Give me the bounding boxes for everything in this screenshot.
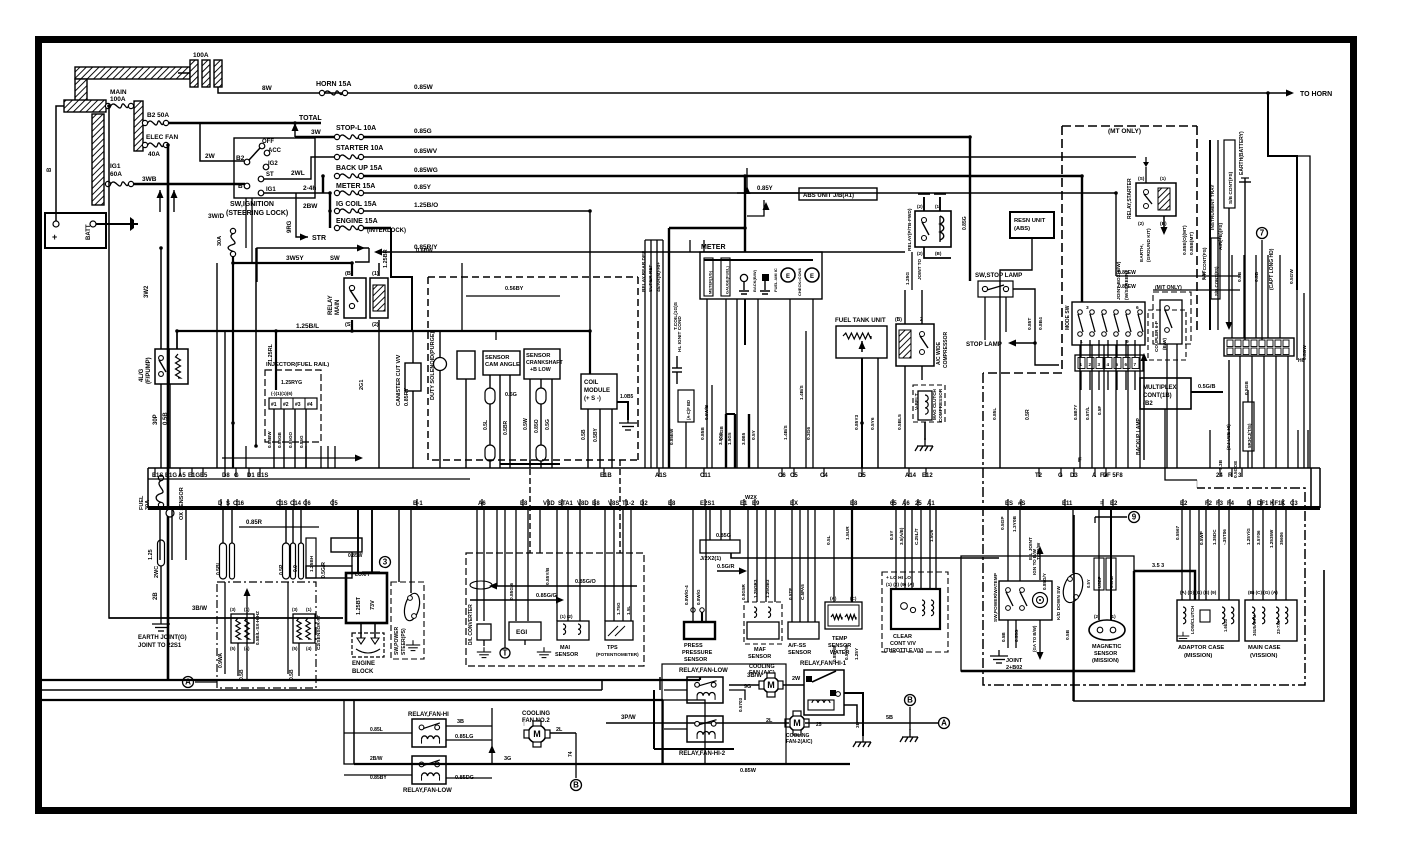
injector feed wire bbox=[255, 248, 257, 446]
svg-text:C.5PA5: C.5PA5 bbox=[800, 584, 805, 600]
wire battery positive to main bar bbox=[56, 106, 66, 221]
svg-text:0.85Y/B: 0.85Y/B bbox=[545, 567, 551, 585]
svg-text:1.25RYG: 1.25RYG bbox=[281, 380, 302, 386]
svg-text:3.5(A/B): 3.5(A/B) bbox=[899, 527, 904, 545]
svg-text:COOLING: COOLING bbox=[522, 711, 550, 717]
svg-text:IGN TO B/W: IGN TO B/W bbox=[1032, 548, 1037, 575]
svg-text:1.5UR: 1.5UR bbox=[845, 526, 851, 540]
relay RELAY,FAN-LOW left bbox=[412, 756, 446, 784]
svg-text:B: B bbox=[47, 167, 53, 172]
sensor TEMP SENSOR WATER bbox=[825, 602, 862, 629]
wire sub cont down bbox=[1228, 208, 1230, 326]
svg-text:E12: E12 bbox=[922, 473, 933, 479]
svg-text:COMPRESSOR: COMPRESSOR bbox=[943, 331, 949, 368]
svg-text:COMPRESSOR: COMPRESSOR bbox=[938, 388, 943, 422]
svg-text:2WC: 2WC bbox=[154, 566, 160, 578]
resistor pair right bbox=[293, 614, 315, 643]
svg-text:CLEAR: CLEAR bbox=[893, 634, 912, 640]
joint box bbox=[331, 538, 362, 552]
svg-text:3W2: 3W2 bbox=[144, 285, 150, 298]
wire left drop 2 bbox=[160, 248, 162, 349]
svg-text:(1): (1) bbox=[306, 607, 312, 612]
svg-text:1.5L: 1.5L bbox=[626, 606, 631, 615]
svg-text:A1S: A1S bbox=[655, 473, 667, 479]
wire ecu right end stub bbox=[1310, 468, 1312, 508]
svg-text:5R3CJ(T/S): 5R3CJ(T/S) bbox=[1247, 423, 1252, 448]
wires mode sw down bbox=[1079, 345, 1081, 468]
svg-text:TOTAL: TOTAL bbox=[299, 115, 322, 122]
svg-text:3.5 3: 3.5 3 bbox=[1152, 563, 1164, 569]
svg-text:STOP-L 10A: STOP-L 10A bbox=[336, 125, 376, 132]
svg-text:SENSOR: SENSOR bbox=[788, 650, 811, 656]
svg-text:CONT V/V: CONT V/V bbox=[890, 641, 916, 647]
svg-text:+ LO HI LO: + LO HI LO bbox=[886, 575, 911, 581]
wire engine feed to meter bbox=[669, 227, 745, 229]
tps TPS bbox=[605, 621, 633, 640]
dash-dot mission enclosure bbox=[983, 373, 1305, 685]
wires main case bbox=[1252, 508, 1254, 600]
svg-text:STA1: STA1 bbox=[558, 501, 574, 507]
wire TOTAL feed to stop fuse bbox=[294, 123, 296, 137]
svg-text:C14: C14 bbox=[290, 501, 302, 507]
svg-text:#4: #4 bbox=[307, 402, 313, 408]
svg-text:RELAY,FAN-LOW: RELAY,FAN-LOW bbox=[403, 788, 452, 794]
svg-text:7: 7 bbox=[1260, 229, 1265, 238]
wire B2 50A to TOTAL bbox=[168, 122, 321, 125]
svg-text:SW,STOP LAMP: SW,STOP LAMP bbox=[975, 272, 1022, 279]
wire fan hi1 bottom link bbox=[844, 705, 857, 723]
wire horn branch down bbox=[1268, 93, 1297, 290]
dashed links between boxes bbox=[529, 460, 531, 553]
wire bus lower group bbox=[42, 679, 700, 681]
multiplex MULTIPLEX CONT UNIT bbox=[1140, 378, 1191, 409]
svg-text:1.25Y/G: 1.25Y/G bbox=[1246, 528, 1251, 545]
ground earth joint bbox=[152, 618, 170, 631]
svg-text:8W: 8W bbox=[262, 85, 273, 92]
wire link to horn line bbox=[218, 87, 322, 93]
svg-text:E5: E5 bbox=[200, 473, 208, 479]
svg-text:0.5Y: 0.5Y bbox=[1086, 579, 1091, 588]
valve CLEAR CONT V/V dashed bbox=[882, 572, 948, 652]
svg-text:0.5GOE: 0.5GOE bbox=[1233, 460, 1239, 478]
wire resn down bbox=[1000, 238, 1032, 468]
wire 2W to ignition B2 bbox=[200, 123, 245, 161]
svg-text:RELAY,FAN-HI-2: RELAY,FAN-HI-2 bbox=[679, 751, 726, 757]
svg-text:BATT: BATT bbox=[86, 224, 92, 240]
svg-text:0.5F: 0.5F bbox=[1097, 406, 1102, 415]
svg-text:EGI: EGI bbox=[516, 629, 527, 636]
svg-text:(M/T ONLY): (M/T ONLY) bbox=[1155, 285, 1182, 291]
svg-text:1.25RL: 1.25RL bbox=[268, 343, 274, 362]
svg-text:D2: D2 bbox=[640, 501, 648, 507]
wires meter to ecu bbox=[706, 299, 708, 468]
svg-text:F4: F4 bbox=[1227, 501, 1235, 507]
wire starter line bbox=[363, 156, 1136, 158]
wire crank links bbox=[500, 463, 560, 465]
svg-text:E: E bbox=[786, 274, 790, 280]
wire j2x2 stub bbox=[709, 508, 711, 540]
svg-text:0.5567: 0.5567 bbox=[1175, 526, 1180, 540]
svg-text:0.5GB: 0.5GB bbox=[1244, 381, 1250, 395]
wire stop lamp line 0.85G bbox=[363, 136, 970, 138]
svg-text:MODULE: MODULE bbox=[584, 388, 610, 394]
twisted pair to pressure sensor bbox=[691, 608, 695, 612]
svg-text:(1): (1) bbox=[1160, 176, 1166, 182]
svg-text:3B: 3B bbox=[457, 719, 464, 725]
screen box (A-C) F BOARD SCREEN bbox=[678, 390, 694, 422]
wire elec fan drop bbox=[167, 145, 170, 680]
svg-text:RELAY,FAN-HI-1: RELAY,FAN-HI-1 bbox=[800, 661, 847, 667]
svg-text:(B2: (B2 bbox=[1143, 401, 1153, 407]
svg-text:F2: F2 bbox=[1205, 501, 1213, 507]
wire ptb out bbox=[924, 247, 951, 258]
wire stop lamp out bbox=[1010, 289, 1035, 343]
svg-text:0.85O: 0.85O bbox=[534, 419, 540, 433]
wire capt drop bbox=[1261, 240, 1263, 340]
svg-text:(MISSION): (MISSION) bbox=[1184, 653, 1212, 659]
ground joint 2+B02 bbox=[990, 650, 1008, 663]
svg-text:RELAY,STARTER: RELAY,STARTER bbox=[1127, 178, 1133, 219]
hatched bar main top bbox=[75, 67, 190, 79]
svg-text:2WL: 2WL bbox=[291, 170, 305, 177]
wire fuel pump relay drops bbox=[160, 384, 162, 468]
svg-text:C16: C16 bbox=[233, 501, 245, 507]
motor COOLING FAN MAIN bbox=[785, 711, 809, 735]
boxed label 5R3CJ bbox=[1243, 402, 1254, 451]
wire dashed right edge bbox=[637, 277, 639, 460]
svg-text:0.5B7Y: 0.5B7Y bbox=[1073, 405, 1078, 420]
wire pre-ecu link line bbox=[222, 457, 360, 459]
svg-text:0.5GW: 0.5GW bbox=[1302, 345, 1308, 360]
engine block ground box bbox=[352, 633, 384, 657]
junction ABS UNIT J/B(A1) bbox=[799, 188, 877, 200]
svg-text:RELAY,FAN-HI: RELAY,FAN-HI bbox=[408, 712, 449, 718]
wire IG1 to ignition B bbox=[133, 183, 245, 186]
svg-text:M: M bbox=[533, 729, 541, 739]
svg-text:E1S: E1S bbox=[257, 473, 268, 479]
svg-text:0.85GO: 0.85GO bbox=[288, 431, 293, 448]
svg-text:40A: 40A bbox=[148, 151, 160, 158]
wire bundle ecu bottom left bbox=[222, 508, 224, 543]
svg-text:0.85E(O)(MT): 0.85E(O)(MT) bbox=[1182, 225, 1188, 255]
svg-text:1.25Y: 1.25Y bbox=[854, 648, 859, 660]
wires adaptor case bbox=[1181, 508, 1183, 600]
wires mt only down bbox=[1166, 344, 1168, 468]
wire ecu left drops bbox=[159, 508, 161, 560]
wire backup line 0.85WG bbox=[363, 175, 1082, 177]
svg-text:0.5G: 0.5G bbox=[545, 419, 551, 430]
svg-text:0.3G6: 0.3G6 bbox=[806, 427, 812, 440]
big right-bottom box bbox=[1074, 515, 1324, 701]
svg-text:#3: #3 bbox=[295, 402, 301, 408]
svg-text:0.85G: 0.85G bbox=[716, 533, 731, 539]
wire f2 bundle bbox=[1196, 480, 1198, 488]
svg-text:SENSOR: SENSOR bbox=[526, 353, 551, 359]
boxed labels USBP 0.5Y 0.5RB bbox=[1094, 558, 1104, 590]
svg-text:(POTENTIOMETER): (POTENTIOMETER) bbox=[596, 652, 639, 657]
svg-text:E2: E2 bbox=[1180, 501, 1188, 507]
svg-text:0.85G: 0.85G bbox=[962, 216, 968, 230]
svg-text:0.5Y: 0.5Y bbox=[751, 429, 757, 440]
svg-text:73V: 73V bbox=[370, 600, 376, 610]
svg-text:T1-2: T1-2 bbox=[622, 501, 635, 507]
svg-text:E8: E8 bbox=[668, 501, 676, 507]
svg-text:-.35T06: -.35T06 bbox=[1222, 529, 1227, 545]
svg-text:IG1: IG1 bbox=[110, 163, 121, 170]
svg-text:EX: EX bbox=[790, 501, 798, 507]
svg-text:A/F-SS: A/F-SS bbox=[788, 643, 806, 649]
wires joint box up bbox=[1080, 340, 1082, 357]
svg-text:0.5G/R: 0.5G/R bbox=[717, 564, 734, 570]
svg-text:RELAY(P/TB-FWD): RELAY(P/TB-FWD) bbox=[907, 208, 913, 251]
wires left relay links bbox=[344, 732, 412, 734]
wire IG1 down to STR bbox=[296, 193, 308, 237]
svg-text:SW,POWER/WATEMP: SW,POWER/WATEMP bbox=[993, 572, 999, 622]
svg-text:7: 7 bbox=[1134, 362, 1137, 367]
wire vertical 0.5BR bbox=[216, 263, 218, 468]
wires sw power bbox=[1007, 508, 1009, 581]
svg-text:COUPLER 6-P: COUPLER 6-P bbox=[1154, 321, 1159, 352]
svg-text:1.75G: 1.75G bbox=[616, 602, 621, 615]
svg-text:JOINT TO: JOINT TO bbox=[917, 258, 922, 280]
svg-text:FUEL AMI IC: FUEL AMI IC bbox=[773, 268, 778, 292]
node circle A bbox=[183, 677, 194, 688]
wires cooling fan no2 bbox=[550, 732, 576, 734]
svg-text:ENGINE 15A: ENGINE 15A bbox=[336, 218, 378, 225]
svg-text:9: 9 bbox=[1132, 513, 1137, 522]
wires connector down bbox=[1239, 356, 1241, 468]
wire clutch line 0.85RY bbox=[376, 251, 905, 253]
dash-dot box spark plug resistors bbox=[217, 582, 316, 688]
svg-text:(S): (S) bbox=[1138, 176, 1145, 182]
svg-text:(INTERLOCK): (INTERLOCK) bbox=[367, 228, 406, 234]
wire interlock box top bbox=[257, 248, 369, 282]
wires to resistor block bbox=[357, 508, 359, 573]
svg-text:(1) (2) (9) (A): (1) (2) (9) (A) bbox=[886, 582, 915, 588]
svg-text:0.85BY: 0.85BY bbox=[370, 775, 387, 781]
svg-text:(1): (1) bbox=[372, 271, 379, 277]
wires coil module down bbox=[587, 409, 589, 468]
svg-text:C3: C3 bbox=[1290, 501, 1298, 507]
wire ig coil line 1.25BO bbox=[363, 210, 590, 212]
svg-text:(STEERING LOCK): (STEERING LOCK) bbox=[226, 210, 288, 217]
sensor MAGNETIC SENSOR (MISSION) bbox=[1089, 620, 1125, 640]
svg-text:2B: 2B bbox=[153, 592, 159, 600]
svg-text:EARTH(BATTERY): EARTH(BATTERY) bbox=[1239, 131, 1245, 175]
egi EGI box bbox=[509, 622, 541, 640]
svg-text:0.85G: 0.85G bbox=[414, 128, 432, 135]
svg-text:0.85G/6: 0.85G/6 bbox=[509, 583, 515, 600]
wire ST to starter fuse bbox=[264, 157, 337, 179]
wires joint box down bbox=[1080, 371, 1082, 390]
connector oval in dashed box bbox=[470, 581, 492, 589]
boxed vertical label SUB CONT(FS) bbox=[1224, 140, 1235, 208]
svg-text:0.85Y3: 0.85Y3 bbox=[854, 414, 860, 430]
svg-text:(VISSION): (VISSION) bbox=[1250, 653, 1277, 659]
svg-text:0.5Y: 0.5Y bbox=[889, 531, 894, 540]
svg-text:EARTH,: EARTH, bbox=[1139, 243, 1145, 262]
svg-text:0.85GB: 0.85GB bbox=[277, 431, 282, 448]
svg-text:2: 2 bbox=[1089, 362, 1092, 367]
svg-text:COIL: COIL bbox=[584, 380, 599, 386]
node circle 9 bbox=[1129, 512, 1140, 523]
wire coil module feed bbox=[589, 331, 591, 374]
svg-text:6: 6 bbox=[1125, 362, 1128, 367]
svg-text:MAF: MAF bbox=[754, 647, 767, 653]
svg-text:100A: 100A bbox=[193, 52, 209, 59]
svg-text:0.8B4: 0.8B4 bbox=[1038, 317, 1044, 330]
svg-text:DF1: DF1 bbox=[1257, 501, 1269, 507]
svg-text:ST: ST bbox=[266, 172, 274, 178]
svg-text:0.5L: 0.5L bbox=[826, 535, 832, 545]
wire injector rail feed 1.25RL bbox=[275, 331, 277, 390]
wire stop lamp right bbox=[1035, 343, 1059, 365]
svg-text:(F/PUMP): (F/PUMP) bbox=[146, 357, 152, 384]
svg-text:0.5B/L-SX-H-HZ: 0.5B/L-SX-H-HZ bbox=[255, 611, 260, 645]
connector capsules cam/crank bbox=[485, 388, 495, 404]
wire bundle mid-left verticals bbox=[245, 446, 247, 468]
wire ign to bw arrow bbox=[1039, 548, 1041, 580]
box sw power/water enclosure bbox=[961, 556, 1134, 671]
boxed vertical label S/B CONT(FS) 2 bbox=[1211, 238, 1220, 299]
svg-text:(MT ONLY): (MT ONLY) bbox=[1108, 128, 1141, 135]
maincase MAIN CASE (VISSION) bbox=[1245, 600, 1297, 641]
svg-text:S/B CONT(FS): S/B CONT(FS) bbox=[1228, 171, 1234, 204]
wires dashed box to ecu bbox=[476, 508, 478, 553]
wire horn line 0.85W bbox=[322, 92, 1268, 94]
svg-text:STEER(PS): STEER(PS) bbox=[401, 628, 407, 655]
wires ac relay bbox=[904, 366, 906, 468]
boxed label 1.25BH bbox=[306, 538, 316, 578]
sensor SENSOR CAM ANGLE bbox=[483, 351, 520, 375]
ECU connector top edge bbox=[148, 467, 1320, 469]
svg-text:D8: D8 bbox=[222, 473, 230, 479]
svg-text:INJECTOR(FUEL RAIL): INJECTOR(FUEL RAIL) bbox=[266, 362, 329, 368]
svg-text:D/L CONVERTER: D/L CONVERTER bbox=[468, 604, 474, 645]
svg-text:0.5W: 0.5W bbox=[523, 418, 529, 430]
svg-text:RELAY: RELAY bbox=[328, 295, 334, 315]
svg-text:TO HORN: TO HORN bbox=[1300, 91, 1332, 98]
wire backup feed vertical bbox=[322, 176, 324, 193]
relay RELAY A/C WIDE bbox=[896, 324, 934, 366]
coil COIL MODULE bbox=[581, 374, 617, 409]
wire coil module right 1.0B5 bbox=[617, 402, 628, 420]
svg-text:A14: A14 bbox=[905, 473, 917, 479]
svg-text:A6: A6 bbox=[902, 501, 910, 507]
dashed box duty/sensor group bbox=[428, 277, 638, 460]
svg-text:65: 65 bbox=[890, 501, 897, 507]
svg-text:E8: E8 bbox=[520, 501, 528, 507]
switch MODE SW box bbox=[1072, 302, 1145, 345]
svg-text:0.85L: 0.85L bbox=[370, 727, 383, 733]
wires pressure sensor bbox=[692, 508, 694, 622]
svg-text:0.5B: 0.5B bbox=[1254, 271, 1260, 282]
sensor PRESS PRESSURE SENSOR bbox=[684, 622, 715, 639]
svg-text:(3): (3) bbox=[292, 607, 298, 612]
wire hi branch bbox=[398, 508, 400, 582]
svg-text:0.85BW: 0.85BW bbox=[267, 431, 272, 448]
svg-text:0.5B: 0.5B bbox=[289, 669, 295, 680]
svg-text:0.9: 0.9 bbox=[293, 565, 299, 572]
svg-text:2W: 2W bbox=[792, 676, 801, 682]
wire meter bundle top bbox=[644, 240, 646, 468]
svg-text:(B/W): (B/W) bbox=[1162, 338, 1167, 350]
svg-text:0.85Y/B: 0.85Y/B bbox=[832, 645, 837, 662]
svg-text:2B/W: 2B/W bbox=[370, 756, 383, 762]
svg-text:(2): (2) bbox=[1138, 221, 1144, 227]
ECU pin stubs top row bbox=[154, 468, 156, 477]
wire main relay top feed 3W5Y bbox=[233, 263, 352, 276]
svg-text:2L: 2L bbox=[556, 727, 563, 733]
svg-text:(B): (B) bbox=[895, 317, 902, 323]
svg-text:E1G: E1G bbox=[188, 473, 200, 479]
wire thick fan feed bbox=[354, 763, 850, 765]
svg-text:(A) (D) (G) (E) (9): (A) (D) (G) (E) (9) bbox=[1180, 590, 1217, 595]
wire backup lamp arrow bbox=[1143, 355, 1145, 460]
wire main fan line bbox=[606, 722, 789, 724]
wire kd down bbox=[1072, 508, 1074, 573]
compressor MAG CLUTCH dashed bbox=[913, 385, 945, 422]
svg-text:W2X: W2X bbox=[745, 495, 757, 501]
svg-text:4: 4 bbox=[1107, 362, 1110, 367]
wire to earth joint bbox=[160, 566, 162, 618]
svg-text:(MISSION): (MISSION) bbox=[1092, 658, 1119, 664]
svg-text:V-BELT: V-BELT bbox=[914, 393, 920, 410]
svg-text:0.85LG: 0.85LG bbox=[455, 734, 473, 740]
svg-text:EARTH JOINT(G): EARTH JOINT(G) bbox=[138, 635, 187, 641]
wire compressor bundle mid bbox=[911, 252, 913, 290]
svg-text:IG1: IG1 bbox=[266, 187, 276, 193]
svg-text:2G1: 2G1 bbox=[359, 380, 365, 390]
dashed box sensor cluster bbox=[466, 553, 644, 666]
node circle B right bbox=[905, 695, 916, 706]
wire bus 3BW bbox=[109, 617, 343, 619]
svg-text:1.25G: 1.25G bbox=[905, 272, 911, 285]
battery BATT bbox=[45, 213, 106, 248]
abs RESN UNIT (ABS) bbox=[1010, 212, 1054, 238]
svg-text:SENSOR: SENSOR bbox=[684, 657, 707, 663]
junction dots bbox=[293, 121, 297, 125]
svg-text:MODE SW: MODE SW bbox=[1065, 305, 1071, 330]
wire IG1 feed bbox=[264, 192, 330, 194]
svg-text:C2/SENSOR-FT: C2/SENSOR-FT bbox=[316, 615, 322, 650]
svg-text:B-1: B-1 bbox=[413, 501, 423, 507]
box bottom-left enclosure bbox=[344, 700, 705, 764]
svg-text:1.3Y0B: 1.3Y0B bbox=[1012, 515, 1018, 532]
breaker 30A vertical bbox=[228, 228, 235, 256]
svg-text:(-)(1)(1)(6): (-)(1)(1)(6) bbox=[271, 391, 293, 396]
svg-text:0.85L: 0.85L bbox=[992, 408, 998, 420]
svg-text:B2: B2 bbox=[236, 155, 245, 162]
node circle 3 bbox=[380, 557, 391, 568]
svg-text:SENSOR: SENSOR bbox=[1094, 651, 1117, 657]
wires fuel tank to ecu bbox=[861, 358, 863, 468]
svg-text:1.25BH: 1.25BH bbox=[309, 555, 315, 572]
wire multiplex down bbox=[1165, 409, 1197, 480]
svg-text:ELEC FAN: ELEC FAN bbox=[146, 134, 178, 141]
svg-text:3.5Y06: 3.5Y06 bbox=[1256, 530, 1261, 545]
svg-text:ENGINE: ENGINE bbox=[352, 661, 375, 667]
svg-text:(2): (2) bbox=[372, 322, 379, 328]
svg-text:J/2X2(1): J/2X2(1) bbox=[700, 556, 721, 562]
switch SW POWER STEERING dashed box bbox=[391, 582, 424, 659]
svg-text:1.4B/S: 1.4B/S bbox=[799, 385, 805, 400]
svg-text:JOINT BOX(B/W): JOINT BOX(B/W) bbox=[1116, 261, 1122, 300]
svg-text:4L/G: 4L/G bbox=[139, 368, 145, 382]
node circle A right bbox=[939, 718, 950, 729]
svg-text:0.5W/B: 0.5W/B bbox=[704, 404, 709, 420]
svg-text:0.5G/R: 0.5G/R bbox=[321, 562, 327, 578]
